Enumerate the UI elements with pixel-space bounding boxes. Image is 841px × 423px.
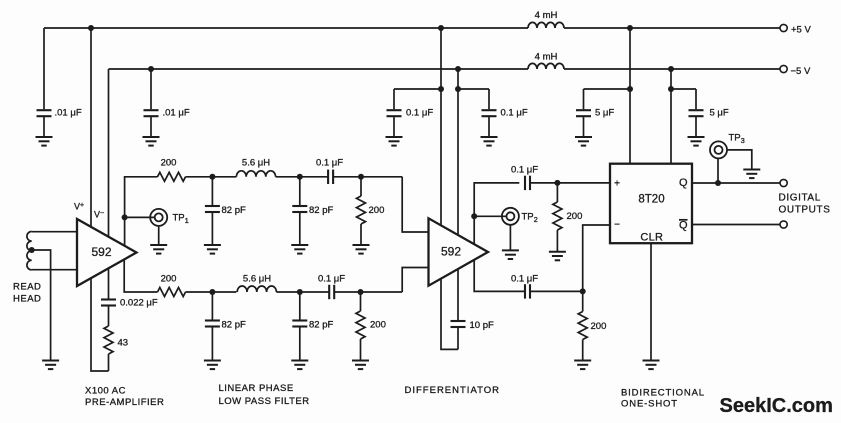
svg-text:5.6 μH: 5.6 μH (242, 158, 270, 169)
svg-text:8T20: 8T20 (638, 194, 664, 206)
svg-text:V+: V+ (74, 202, 84, 212)
svg-text:DIFFERENTIATOR: DIFFERENTIATOR (405, 385, 500, 396)
inductor L2 4 mH (528, 63, 564, 69)
node G (554, 180, 560, 186)
svg-text:−5 V: −5 V (791, 66, 811, 77)
test point TP1 (150, 209, 189, 226)
node TP1 junction (122, 214, 128, 220)
wire TP3 shield to ground (727, 150, 752, 170)
wire resistor to U bottom (108, 354, 110, 371)
svg-text:OUTPUTS: OUTPUTS (779, 205, 831, 216)
inductor L3 5.6uH (236, 158, 275, 177)
capacitor C1 .01uF on +5V rail left end (36, 28, 82, 146)
read head coil (27, 232, 32, 270)
inductor L4 5.6uH (237, 274, 276, 293)
svg-text:LINEAR PHASE: LINEAR PHASE (219, 383, 294, 394)
wire node H to 8T20 minus input (583, 225, 610, 291)
svg-text:200: 200 (161, 274, 177, 285)
inductor L1 4 mH (528, 22, 564, 28)
wire read head top to amp input (32, 231, 77, 233)
capacitor C8 82pF (204, 177, 246, 254)
node read head center tap (29, 247, 35, 253)
svg-text:5.6 μH: 5.6 μH (243, 274, 271, 285)
svg-text:43: 43 (118, 338, 129, 349)
node V- branch (455, 86, 461, 92)
wire read head bottom to amp input (32, 269, 77, 271)
svg-text:592: 592 (441, 245, 461, 259)
svg-text:Q: Q (679, 220, 688, 232)
svg-text:0.1 μF: 0.1 μF (511, 274, 538, 285)
wire top path to differentiator input (402, 177, 428, 232)
wire V+ line to differentiator (441, 28, 458, 349)
svg-text:TP2: TP2 (522, 212, 538, 225)
ground TP1 (150, 245, 167, 254)
svg-text:82 pF: 82 pF (222, 205, 246, 216)
svg-text:200: 200 (369, 205, 385, 216)
svg-text:5 μF: 5 μF (710, 108, 729, 119)
svg-text:ONE-SHOT: ONE-SHOT (621, 399, 678, 410)
ground CLR (643, 361, 660, 370)
svg-text:PRE-AMPLIFIER: PRE-AMPLIFIER (85, 397, 164, 408)
wire C6 to node H (530, 290, 583, 292)
wire center tap to ground (32, 250, 51, 361)
svg-text:5 μF: 5 μF (595, 108, 614, 119)
svg-text:200: 200 (567, 211, 583, 222)
svg-text:4 mH: 4 mH (535, 52, 558, 63)
node on +5V rail at x=441 (438, 25, 444, 31)
wire R1 to node A (186, 176, 237, 178)
wire preamp upper output (125, 177, 158, 245)
wire TP1 to ground (158, 226, 160, 245)
capacitor C4 0.1uF decoupling (458, 89, 528, 146)
+5V rail wire (44, 27, 780, 29)
svg-text:Q: Q (679, 177, 688, 189)
svg-text:0.1 μF: 0.1 μF (511, 165, 538, 176)
node A (209, 174, 215, 180)
op-amp U2 592 differentiator (429, 218, 489, 285)
svg-text:200: 200 (161, 158, 177, 169)
wire CLR to ground (650, 243, 652, 360)
svg-text:200: 200 (370, 320, 386, 331)
svg-text:82 pF: 82 pF (309, 205, 333, 216)
wire R3 to node D (186, 291, 237, 293)
svg-text:BIDIRECTIONAL: BIDIRECTIONAL (621, 388, 705, 399)
svg-text:82 pF: 82 pF (309, 320, 333, 331)
capacitor C6 0.1uF coupling bottom (511, 274, 538, 299)
op-amp U1 592 preamp (77, 219, 137, 286)
node Q (715, 180, 721, 186)
node on -5V rail at x=671 (668, 66, 674, 72)
svg-text:.01 μF: .01 μF (55, 108, 82, 119)
node 8T20 +5 branch (627, 86, 633, 92)
one-shot U3 8T20 (610, 164, 692, 244)
svg-text:592: 592 (91, 245, 111, 259)
svg-text:READ: READ (13, 282, 41, 293)
wire C5 to 8T20 plus input (530, 182, 610, 184)
wire V- supply line to preamp (108, 69, 110, 299)
test point TP3 (710, 133, 745, 159)
node on -5V rail at x=458 (455, 66, 461, 72)
node on +5V rail at x=630 (627, 25, 633, 31)
wire L4 to C13 (276, 291, 402, 293)
resistor R3 200 bottom (158, 274, 186, 297)
capacitor C16 5uF (671, 89, 729, 146)
resistor R2 200 shunt top (353, 177, 385, 254)
capacitor C11 82pF bottom (204, 292, 246, 369)
svg-text:V−: V− (94, 210, 104, 220)
svg-text:0.022 μF: 0.022 μF (120, 298, 158, 309)
wire differentiator upper output (474, 183, 519, 245)
capacitor C10 0.1uF series top (316, 158, 343, 185)
svg-text:0.1 μF: 0.1 μF (318, 274, 345, 285)
+5V terminal (780, 24, 787, 31)
resistor R7 200 (574, 291, 606, 369)
wire Q output (692, 182, 780, 184)
capacitor C14 10pF gain network (451, 320, 494, 349)
node 8T20 -5 branch (668, 86, 674, 92)
svg-text:TP1: TP1 (173, 213, 189, 226)
Q output terminal (780, 179, 787, 186)
wire +5V to 8T20 top pin (629, 28, 631, 164)
svg-text:X100 AC: X100 AC (85, 386, 126, 397)
test point TP2 (502, 208, 538, 225)
wire Qbar output (692, 224, 780, 226)
-5V rail wire (109, 68, 781, 70)
svg-text:10 pF: 10 pF (470, 320, 494, 331)
wire differentiator lower output (474, 260, 525, 292)
node V+ branch (438, 86, 444, 92)
wire TP2 to ground (509, 225, 511, 251)
wire to TP1 (125, 216, 155, 218)
resistor R1 200 top (158, 158, 186, 182)
svg-text:TP3: TP3 (729, 133, 745, 146)
node E (297, 289, 303, 295)
svg-text:4 mH: 4 mH (535, 10, 558, 21)
wire cap to resistor (108, 306, 110, 327)
svg-text:.01 μF: .01 μF (163, 108, 190, 119)
wire V- line to differentiator (457, 69, 459, 320)
svg-text:HEAD: HEAD (13, 294, 41, 305)
svg-text:+5 V: +5 V (791, 25, 811, 36)
capacitor C12 82pF bottom (291, 292, 333, 369)
ground TP2 (502, 250, 519, 259)
svg-text:0.1 μF: 0.1 μF (501, 108, 528, 119)
svg-text:SeekIC.com: SeekIC.com (720, 395, 833, 417)
-5V terminal (780, 65, 787, 72)
resistor R4 200 shunt bottom (352, 292, 386, 369)
node C (358, 174, 364, 180)
svg-text:200: 200 (591, 321, 607, 332)
node TP2 junction (471, 213, 477, 219)
resistor R5 43 (104, 326, 128, 354)
node on +5V rail at x=91 (88, 25, 94, 31)
resistor R6 200 (549, 183, 582, 260)
node F (358, 289, 364, 295)
svg-text:0.1 μF: 0.1 μF (406, 108, 433, 119)
node B (297, 174, 303, 180)
node on -5V rail at x=151 (148, 66, 154, 72)
wire to TP2 (474, 215, 506, 217)
svg-text:82 pF: 82 pF (222, 320, 246, 331)
ground read head (42, 361, 59, 370)
wire preamp lower output (124, 259, 157, 292)
wire L3 to C10 (276, 176, 403, 178)
svg-text:+: + (614, 179, 620, 190)
svg-text:DIGITAL: DIGITAL (779, 193, 821, 204)
capacitor C2 .01uF on -5V rail (143, 69, 190, 146)
wire -5V to 8T20 top pin (670, 69, 672, 164)
node H (580, 288, 586, 294)
capacitor C15 5uF (575, 89, 630, 146)
wire bottom path to differentiator input (402, 268, 428, 293)
capacitor C5 0.1uF coupling top (511, 165, 538, 191)
svg-text:−: − (614, 220, 620, 231)
capacitor C3 0.1uF decoupling (386, 89, 442, 146)
capacitor C9 82pF (291, 177, 333, 254)
svg-text:LOW PASS FILTER: LOW PASS FILTER (219, 396, 310, 407)
svg-text:0.1 μF: 0.1 μF (316, 158, 343, 169)
node D (209, 289, 215, 295)
ground TP3 (743, 170, 760, 179)
wire V+ supply line to preamp and gain pin (91, 28, 109, 371)
capacitor C7 0.022uF gain network (101, 298, 158, 309)
svg-text:CLR: CLR (640, 232, 663, 244)
wire Q node to TP3 (717, 158, 719, 183)
capacitor C13 0.1uF series bottom (318, 274, 345, 300)
Qbar output terminal (780, 221, 787, 228)
